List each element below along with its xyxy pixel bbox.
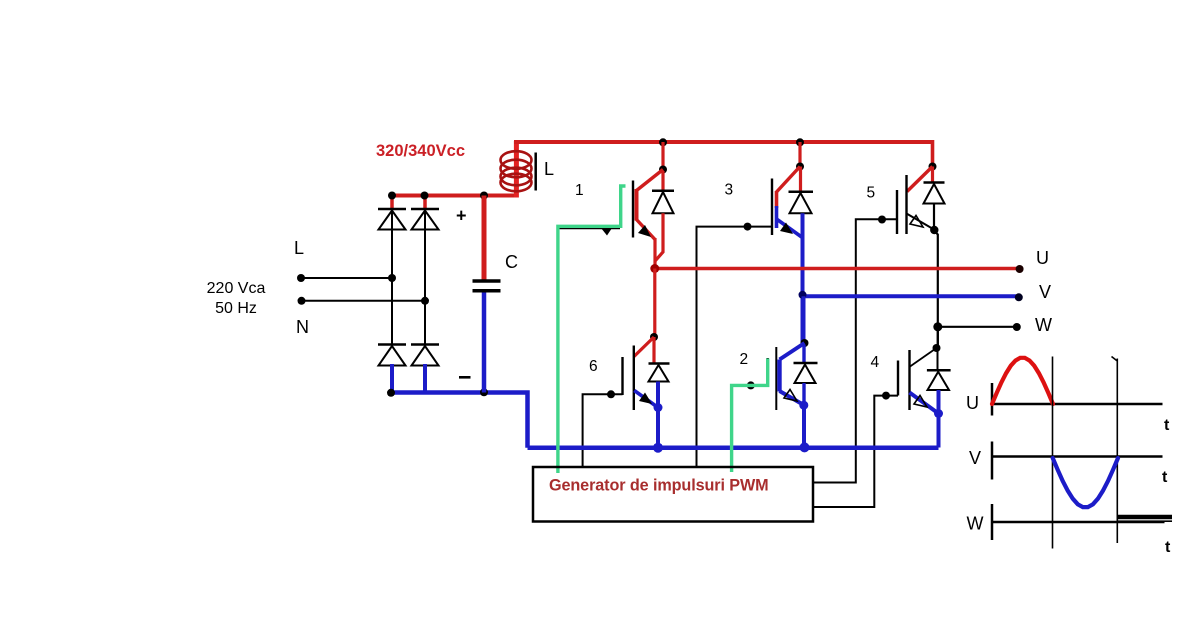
transistor Q1 (IGBT 1, high side U) xyxy=(633,142,667,269)
junction bus dots xyxy=(388,192,488,200)
diode D5 (freewheel Q1) xyxy=(652,171,674,261)
node L terminal xyxy=(294,238,305,282)
svg-text:W: W xyxy=(1035,315,1052,335)
svg-text:N: N xyxy=(296,317,309,337)
transistor Q4 (IGBT 4, low side W) xyxy=(898,327,941,414)
transistor Q3 (IGBT 3, high side V) xyxy=(772,142,804,238)
wire gate 3 (black from PWM) xyxy=(697,223,773,467)
capacitor C1 xyxy=(473,196,501,393)
junction W xyxy=(933,322,942,331)
wire gate 4 (black from PWM) xyxy=(813,392,898,507)
waveform V blue half-sine dip xyxy=(1053,458,1118,507)
node N terminal xyxy=(296,297,309,337)
junction L-bridge xyxy=(388,274,396,282)
wire gate 2 (green, over rail) xyxy=(732,359,768,473)
wire gate 1 (green, over rail) xyxy=(558,186,626,473)
waveform U axis xyxy=(992,383,1163,416)
node W terminal xyxy=(1013,315,1052,335)
wire blue stub leg1 xyxy=(390,364,394,393)
wire gate 1 (green from PWM) xyxy=(558,228,620,236)
wire negative bus (bridge bottom) xyxy=(390,393,528,448)
junction rail V xyxy=(800,442,810,452)
wire red stub leg1 xyxy=(390,196,394,211)
svg-text:L: L xyxy=(294,238,304,258)
junction U xyxy=(650,264,659,273)
label minus xyxy=(459,376,471,379)
diode D8 (freewheel Q6) xyxy=(649,337,670,382)
wire positive bus (bridge top) xyxy=(390,194,516,198)
waveform W axis xyxy=(992,504,1165,540)
wire gate 6 (black from PWM) xyxy=(583,390,623,467)
transistor Q2 (IGBT 2, low side V) xyxy=(768,296,809,410)
wire Q6 emitter to rail xyxy=(654,382,663,449)
junction V xyxy=(799,291,807,299)
svg-text:V: V xyxy=(969,448,981,468)
svg-text:6: 6 xyxy=(589,358,598,375)
svg-text:50 Hz: 50 Hz xyxy=(215,300,257,317)
svg-text:320/340Vcc: 320/340Vcc xyxy=(376,142,465,160)
svg-text:W: W xyxy=(967,514,984,534)
junction N-bridge xyxy=(421,297,429,305)
svg-text:V: V xyxy=(1039,282,1051,302)
diode D1 (bridge top-left) xyxy=(378,209,406,230)
diode D6 (freewheel Q3) xyxy=(789,167,814,214)
diode D3 (bridge bottom-left) xyxy=(378,345,406,366)
inductor L1 xyxy=(501,141,532,198)
wire DC- rail xyxy=(528,445,939,450)
svg-text:t: t xyxy=(1165,539,1171,556)
junction bottom-left xyxy=(387,389,395,397)
svg-text:4: 4 xyxy=(871,354,880,371)
svg-text:5: 5 xyxy=(867,185,876,202)
svg-text:+: + xyxy=(456,206,467,226)
waveform V axis xyxy=(992,442,1163,480)
junction rail U xyxy=(653,443,663,453)
wire blue stub leg2 xyxy=(423,364,427,393)
wire gate 2 (green from PWM) xyxy=(747,381,755,389)
svg-text:Generator de impulsuri PWM: Generator de impulsuri PWM xyxy=(549,477,769,495)
svg-text:1: 1 xyxy=(575,182,584,199)
diode D10 (freewheel Q4) xyxy=(927,348,951,390)
svg-text:3: 3 xyxy=(725,182,734,199)
wire DC+ top bus xyxy=(514,140,933,144)
wire W phase output xyxy=(936,326,1017,328)
diode D2 (bridge top-right) xyxy=(411,209,439,230)
junction top bus U xyxy=(659,138,667,146)
wire W phase drop xyxy=(934,231,938,350)
wire bridge leg 1 xyxy=(391,209,393,345)
wire V phase output xyxy=(803,294,1020,298)
svg-text:U: U xyxy=(966,393,979,413)
wire gate 5 (black from PWM) xyxy=(813,216,897,483)
waveform U red half-sine xyxy=(992,358,1053,404)
wire red stub leg2 xyxy=(423,196,427,211)
svg-text:t: t xyxy=(1162,469,1168,486)
transistor Q6 (IGBT 6, low side U) xyxy=(623,269,659,411)
node V terminal xyxy=(1015,282,1051,302)
wire U phase output xyxy=(655,267,1020,270)
svg-text:t: t xyxy=(1164,417,1170,434)
diode D7 (freewheel Q5) xyxy=(924,167,945,230)
wire V phase drop xyxy=(801,213,805,345)
svg-text:C: C xyxy=(505,252,518,272)
wire L input xyxy=(301,277,392,279)
diode D9 (freewheel Q2) xyxy=(794,345,818,405)
wire vertical gridline 2 xyxy=(1112,357,1118,544)
junction top bus V xyxy=(796,138,804,146)
svg-text:220 Vca: 220 Vca xyxy=(207,280,266,297)
PWM generator box U7 xyxy=(533,467,813,522)
svg-text:U: U xyxy=(1036,248,1049,268)
wire Q2 emitter to rail xyxy=(799,401,808,448)
waveform W level (thick double line) xyxy=(1117,517,1172,521)
wire bridge leg 2 xyxy=(424,209,426,345)
svg-text:2: 2 xyxy=(740,351,749,368)
wire N input xyxy=(302,300,426,302)
junction capacitor-bottom xyxy=(480,388,488,396)
diode D4 (bridge bottom-right) xyxy=(411,345,439,366)
svg-text:L: L xyxy=(544,159,554,179)
node U terminal xyxy=(1016,248,1049,273)
wire vertical gridline 1 xyxy=(1052,357,1054,549)
inductor core bar xyxy=(534,153,537,191)
label 220 Vca 50 Hz xyxy=(207,280,266,317)
transistor Q5 (IGBT 5, high side W) xyxy=(897,140,939,234)
wire Q4 emitter to rail xyxy=(934,390,943,448)
